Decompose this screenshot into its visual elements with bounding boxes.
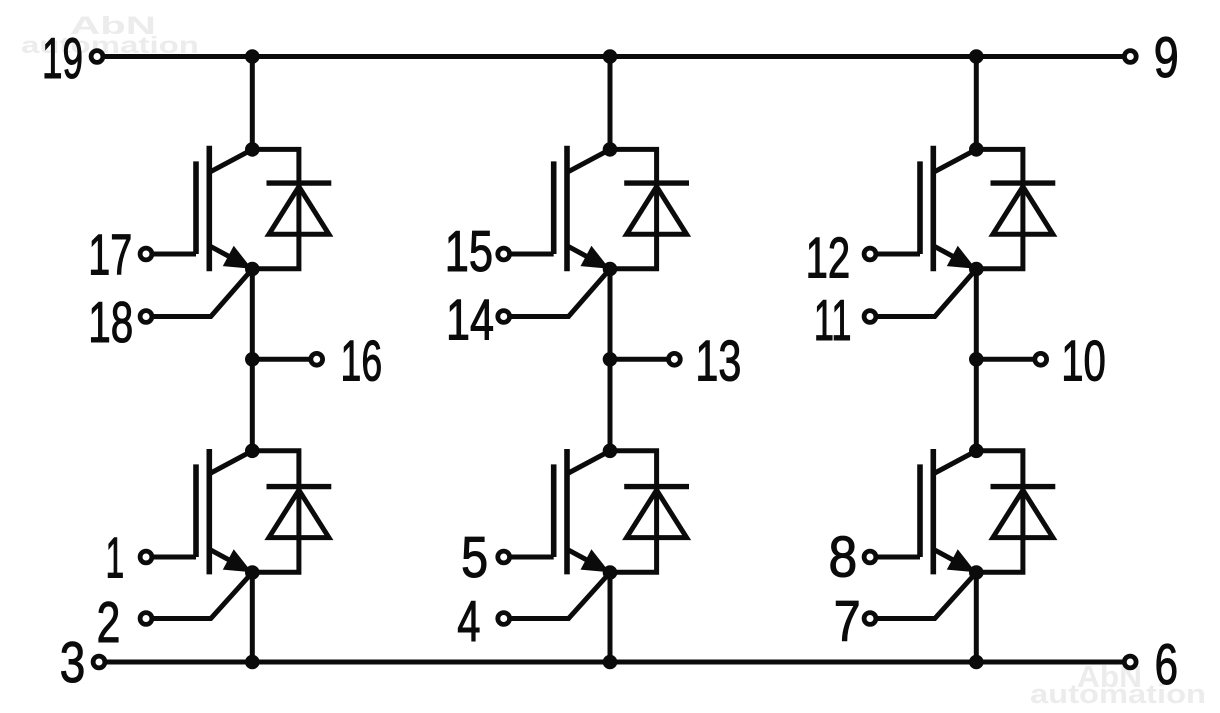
svg-text:6: 6 [1155,633,1178,697]
aux emitter pin 14 circle [498,311,510,323]
gate terminal pin 17 circle [140,248,152,260]
pin label 9 [1154,26,1179,90]
svg-text:18: 18 [88,291,133,355]
node Q3 emitter dot [603,262,617,276]
junction node bottom rail leg at x=976.3 [970,655,984,669]
IGBT Q1 [196,146,252,272]
node Q2 emitter dot [246,566,260,580]
pin label 12 [806,227,851,291]
node Q4 emitter dot [603,566,617,580]
node Q1 collector dot [246,143,260,157]
svg-text:11: 11 [814,289,852,353]
wire top DC+ rail (pin 19 to pin 9) [103,54,1125,59]
freewheeling diode D4 branch wire [610,451,657,572]
svg-text:12: 12 [806,227,851,291]
svg-text:13: 13 [695,329,741,393]
pin label 2 [97,591,121,655]
watermark automation top-left [21,32,199,58]
phase output pin 13 wire [610,357,669,362]
svg-text:2: 2 [97,591,121,655]
pin label 13 [695,329,741,393]
wire Q4 emitter to bottom rail [608,573,613,663]
pin label 5 [461,526,488,590]
gate terminal pin 15 wire [510,252,554,257]
watermark automation bottom-right [1030,679,1206,709]
freewheeling diode D6 branch wire [976,451,1023,572]
terminal pin 6 circle [1124,656,1136,668]
node Q5 collector dot [970,143,984,157]
phase output pin 16 wire [252,357,310,362]
junction node top rail leg at x=610 [603,50,617,64]
pin label 18 [88,291,133,355]
IGBT Q2 [196,449,252,574]
freewheeling diode D5 branch wire [976,149,1023,268]
pin label 14 [446,289,494,353]
svg-text:10: 10 [1061,330,1106,394]
phase terminal pin 10 circle [1035,353,1047,365]
svg-text:automation: automation [1030,679,1206,709]
junction node top rail leg at x=252.3 [246,50,260,64]
aux emitter pin 4 circle [498,613,510,625]
pin label 17 [88,224,132,288]
gate terminal pin 8 circle [864,551,876,563]
pin label 16 [341,330,383,394]
gate terminal pin 5 wire [510,555,554,560]
phase terminal pin 13 circle [669,353,681,365]
svg-text:17: 17 [88,224,132,288]
junction node bottom rail leg at x=610 [603,655,617,669]
node Q3 collector dot [603,143,617,157]
svg-text:8: 8 [829,525,858,589]
aux emitter pin 18 circle [140,311,152,323]
node Q2 collector dot [246,444,260,458]
pin label 4 [457,590,480,654]
pin label 10 [1061,330,1106,394]
diode D5 symbol [991,183,1056,234]
pin label 8 [829,525,858,589]
aux emitter pin 14 wire [510,269,610,317]
pin label 19 [42,27,83,91]
phase terminal pin 16 circle [311,353,323,365]
gate terminal pin 12 circle [864,248,876,260]
phase output pin 10 wire [976,357,1035,362]
aux emitter pin 7 wire [876,573,976,619]
freewheeling diode D2 branch wire [252,451,299,572]
svg-text:4: 4 [457,590,480,654]
pin label 1 [106,526,125,590]
node Q6 emitter dot [970,566,984,580]
aux emitter pin 2 circle [140,613,152,625]
terminal pin 19 circle [91,51,103,63]
watermark AbN top-left [70,12,156,40]
terminal pin 3 circle [93,656,105,668]
IGBT Q5 [920,146,976,272]
aux emitter pin 11 wire [876,269,976,317]
pin label 7 [834,590,861,654]
gate terminal pin 8 wire [876,555,920,560]
node Q6 collector dot [970,444,984,458]
aux emitter pin 2 wire [152,573,252,619]
svg-text:5: 5 [461,526,488,590]
wire top rail to Q5 collector [974,57,979,150]
wire top rail to Q3 collector [608,57,613,150]
IGBT Q4 [554,449,610,574]
diode D6 symbol [991,487,1056,538]
IGBT Q6 [920,449,976,574]
wire Q5 emitter to Q6 collector (phase leg) [974,269,979,451]
svg-text:9: 9 [1154,26,1179,90]
freewheeling diode D1 branch wire [252,149,299,268]
svg-text:16: 16 [341,330,383,394]
gate terminal pin 1 circle [140,551,152,563]
IGBT Q3 [554,146,610,272]
gate terminal pin 1 wire [152,555,196,560]
gate terminal pin 12 wire [876,252,920,257]
diode D3 symbol [624,183,689,234]
svg-text:19: 19 [42,27,83,91]
aux emitter pin 18 wire [152,269,252,317]
svg-text:7: 7 [834,590,861,654]
aux emitter pin 7 circle [864,613,876,625]
freewheeling diode D3 branch wire [610,149,657,268]
svg-text:1: 1 [106,526,125,590]
svg-text:3: 3 [60,631,86,695]
aux emitter pin 4 wire [510,573,610,619]
wire bottom DC- rail (pin 3 to pin 6) [105,660,1124,665]
node Q1 emitter dot [246,262,260,276]
node Q4 collector dot [603,444,617,458]
gate terminal pin 5 circle [498,551,510,563]
junction node phase 16 dot [246,353,260,367]
aux emitter pin 11 circle [864,311,876,323]
diode D1 symbol [267,183,332,234]
junction node top rail leg at x=976.3 [970,50,984,64]
wire Q1 emitter to Q2 collector (phase leg) [250,269,255,451]
wire Q6 emitter to bottom rail [974,573,979,663]
diode D2 symbol [267,487,332,538]
wire Q2 emitter to bottom rail [250,573,255,663]
svg-text:15: 15 [445,220,493,284]
pin label 3 [60,631,86,695]
gate terminal pin 17 wire [152,252,196,257]
wire Q3 emitter to Q4 collector (phase leg) [608,269,613,451]
diode D4 symbol [624,487,689,538]
pin label 15 [445,220,493,284]
gate terminal pin 15 circle [498,248,510,260]
junction node phase 13 dot [603,353,617,367]
junction node bottom rail leg at x=252.3 [246,655,260,669]
junction node phase 10 dot [970,353,984,367]
node Q5 emitter dot [970,262,984,276]
pin label 6 [1155,633,1178,697]
pin label 11 [814,289,852,353]
svg-text:14: 14 [446,289,494,353]
wire top rail to Q1 collector [250,57,255,150]
terminal pin 9 circle [1124,51,1136,63]
watermark AbN bottom-right [1077,659,1142,694]
